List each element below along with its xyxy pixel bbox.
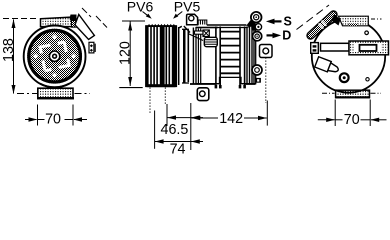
dim 46.5 line and arrow — [168, 117, 191, 119]
dim 70 inner stubs — [38, 119, 45, 121]
clutch plate line — [187, 30, 189, 82]
cardinal dot W — [33, 54, 38, 59]
top lug with bolt hole — [187, 14, 198, 24]
foot centerline right part — [75, 93, 91, 95]
dim 120 bottom reference line — [119, 87, 142, 89]
body top edge — [196, 27, 218, 29]
svg-text:70: 70 — [344, 112, 360, 128]
dash-dot centerline right of bracket — [371, 18, 382, 20]
pulley ribs left group — [151, 26, 157, 86]
dark wedge where bracket meets circle — [331, 15, 341, 26]
pulley left flange black band — [146, 26, 149, 87]
D arrow — [267, 34, 277, 36]
top bracket (hatched) — [339, 16, 369, 26]
connector on right edge — [89, 42, 94, 53]
dotted projection from rear lug — [265, 58, 267, 104]
svg-text:D: D — [282, 29, 291, 43]
svg-text:PV5: PV5 — [174, 0, 201, 14]
port bracket silhouette — [251, 22, 256, 31]
dim 74 line and arrows — [155, 141, 191, 143]
dim 138 arrow down — [12, 85, 16, 94]
dashed axis line to corner — [297, 5, 330, 30]
svg-text:70: 70 — [45, 112, 61, 128]
clutch diagonal strut — [184, 26, 190, 33]
dim 70 left arrow — [25, 119, 37, 121]
svg-text:120: 120 — [118, 41, 134, 65]
tilted flange band — [75, 15, 94, 40]
dim 120 arrow down — [128, 77, 132, 86]
corner black wedge — [70, 15, 77, 22]
bottom foot (hatched) — [38, 88, 73, 98]
connector pin 1 — [90, 44, 93, 47]
dim 142 right extension line — [266, 101, 268, 126]
dim 120 top reference line — [122, 20, 145, 22]
center hub circle — [49, 51, 59, 61]
white corner brackets (pulley spokes) — [40, 42, 69, 71]
dim 70 right view: right extension — [369, 100, 371, 127]
dim 70 right view: inner stubs — [335, 119, 342, 121]
dim 138 bottom dash-dot reference line — [17, 93, 37, 95]
S port circles — [251, 12, 262, 23]
dash-dot centerline through foot left — [322, 92, 335, 94]
S port wedge — [246, 18, 256, 27]
rear circle — [312, 19, 385, 92]
cardinal dot E — [71, 54, 76, 59]
dim 74 left extension line — [154, 111, 156, 149]
top bracket dark strip — [349, 23, 359, 25]
connector block — [204, 37, 217, 46]
top lug hole — [189, 16, 194, 21]
small hatched square near corner — [72, 21, 79, 28]
body bottom edge — [190, 83, 215, 85]
dash-dot centerline through foot right — [371, 92, 382, 94]
right block of bar — [349, 41, 389, 55]
tilted lozenge bracket — [311, 15, 334, 36]
dim 120 arrow up — [128, 22, 132, 31]
X-box sensor — [203, 30, 209, 37]
rear big bolt circle — [252, 65, 262, 75]
rear head plates verticals — [247, 26, 254, 84]
bolt donut — [340, 73, 349, 82]
dim 138 top dashed reference line — [3, 18, 38, 20]
clutch top/bottom caps — [182, 28, 189, 30]
connector ribs — [205, 40, 217, 45]
bottom foot (hatched) — [336, 90, 370, 97]
clutch coil wire bar — [195, 31, 204, 34]
svg-text:PV6: PV6 — [127, 0, 154, 14]
middle small circle — [255, 24, 261, 30]
through-bolt left pair — [215, 27, 217, 86]
pulley right black band — [172, 26, 177, 87]
dim 138 arrow up — [12, 19, 16, 28]
top bracket (hatched) — [41, 17, 73, 27]
dim 70 right extension line — [72, 105, 74, 126]
rear foot — [255, 78, 261, 83]
clutch hub bar — [183, 29, 186, 84]
cardinal dot S — [52, 73, 57, 78]
dim 46.5 left extension line — [166, 104, 168, 126]
svg-text:46.5: 46.5 — [161, 122, 189, 138]
bottom foot thick base line — [37, 97, 74, 99]
dashed projection line A (upper) — [82, 8, 91, 17]
dim 46.5 outside arrow at right extension — [191, 117, 203, 119]
small bolt circle top right — [365, 31, 369, 35]
dim 70 right view: right arrow — [371, 119, 387, 121]
svg-text:142: 142 — [219, 111, 243, 127]
D port circles — [253, 32, 262, 41]
dim 142 line right part — [244, 117, 267, 119]
rear lug with hole — [260, 45, 273, 58]
clutch rear line — [192, 28, 194, 85]
compressor body outline — [196, 26, 256, 84]
cardinal dot N — [52, 34, 57, 39]
pulley top edge — [146, 25, 177, 27]
dim 70 left extension line — [37, 105, 39, 126]
pulley middle black band — [160, 26, 165, 87]
S arrow — [271, 20, 282, 22]
pulley bottom black band — [147, 84, 176, 87]
pulley inner black ring — [29, 30, 81, 82]
left tab connector — [311, 43, 319, 54]
dotted projection line from pulley left groove — [149, 88, 151, 114]
svg-text:74: 74 — [170, 141, 186, 154]
dim 138 vertical line — [13, 20, 15, 94]
rear circle bottom arc over foot — [336, 90, 362, 92]
through-bolt right pair — [239, 27, 241, 86]
dim 70 right view: left arrow — [318, 119, 335, 121]
comb teeth on body top — [198, 20, 207, 25]
dashed projection line B (lower) — [96, 16, 107, 28]
PV5 leader arrow — [176, 12, 182, 17]
pulley ribs right group — [166, 26, 169, 86]
bottom left lug — [197, 88, 209, 101]
dim 120 vertical line — [129, 22, 131, 87]
pulley v-groove teeth — [148, 24, 176, 26]
pulley side: body rect — [146, 26, 177, 87]
clutch flange line with hook — [179, 26, 182, 85]
center hub dot — [53, 54, 57, 58]
connector pin 2 — [90, 49, 93, 52]
svg-text:138: 138 — [1, 38, 17, 62]
dim 70 right arrow — [74, 119, 87, 121]
dim 142 line left part — [192, 117, 219, 119]
pulley hatched face disc — [27, 29, 82, 84]
dotted projection line from pulley right groove — [164, 88, 166, 105]
body left plates verticals — [198, 29, 200, 84]
horn cylinder + cone (tilted) — [315, 57, 340, 76]
cylinder rungs — [220, 32, 240, 74]
dim 70 right view: left extension — [334, 100, 336, 127]
pulley bottom arc over foot — [40, 84, 69, 88]
pulley outer circle — [24, 26, 86, 88]
PV6 leader arrow — [143, 12, 149, 17]
svg-text:S: S — [284, 14, 292, 28]
shared extension line (46.5/74/142) — [190, 103, 192, 150]
bolt feet — [215, 85, 218, 88]
long bar across — [321, 43, 350, 51]
tiny circle lower right — [366, 78, 369, 81]
wire to connector — [188, 34, 203, 41]
